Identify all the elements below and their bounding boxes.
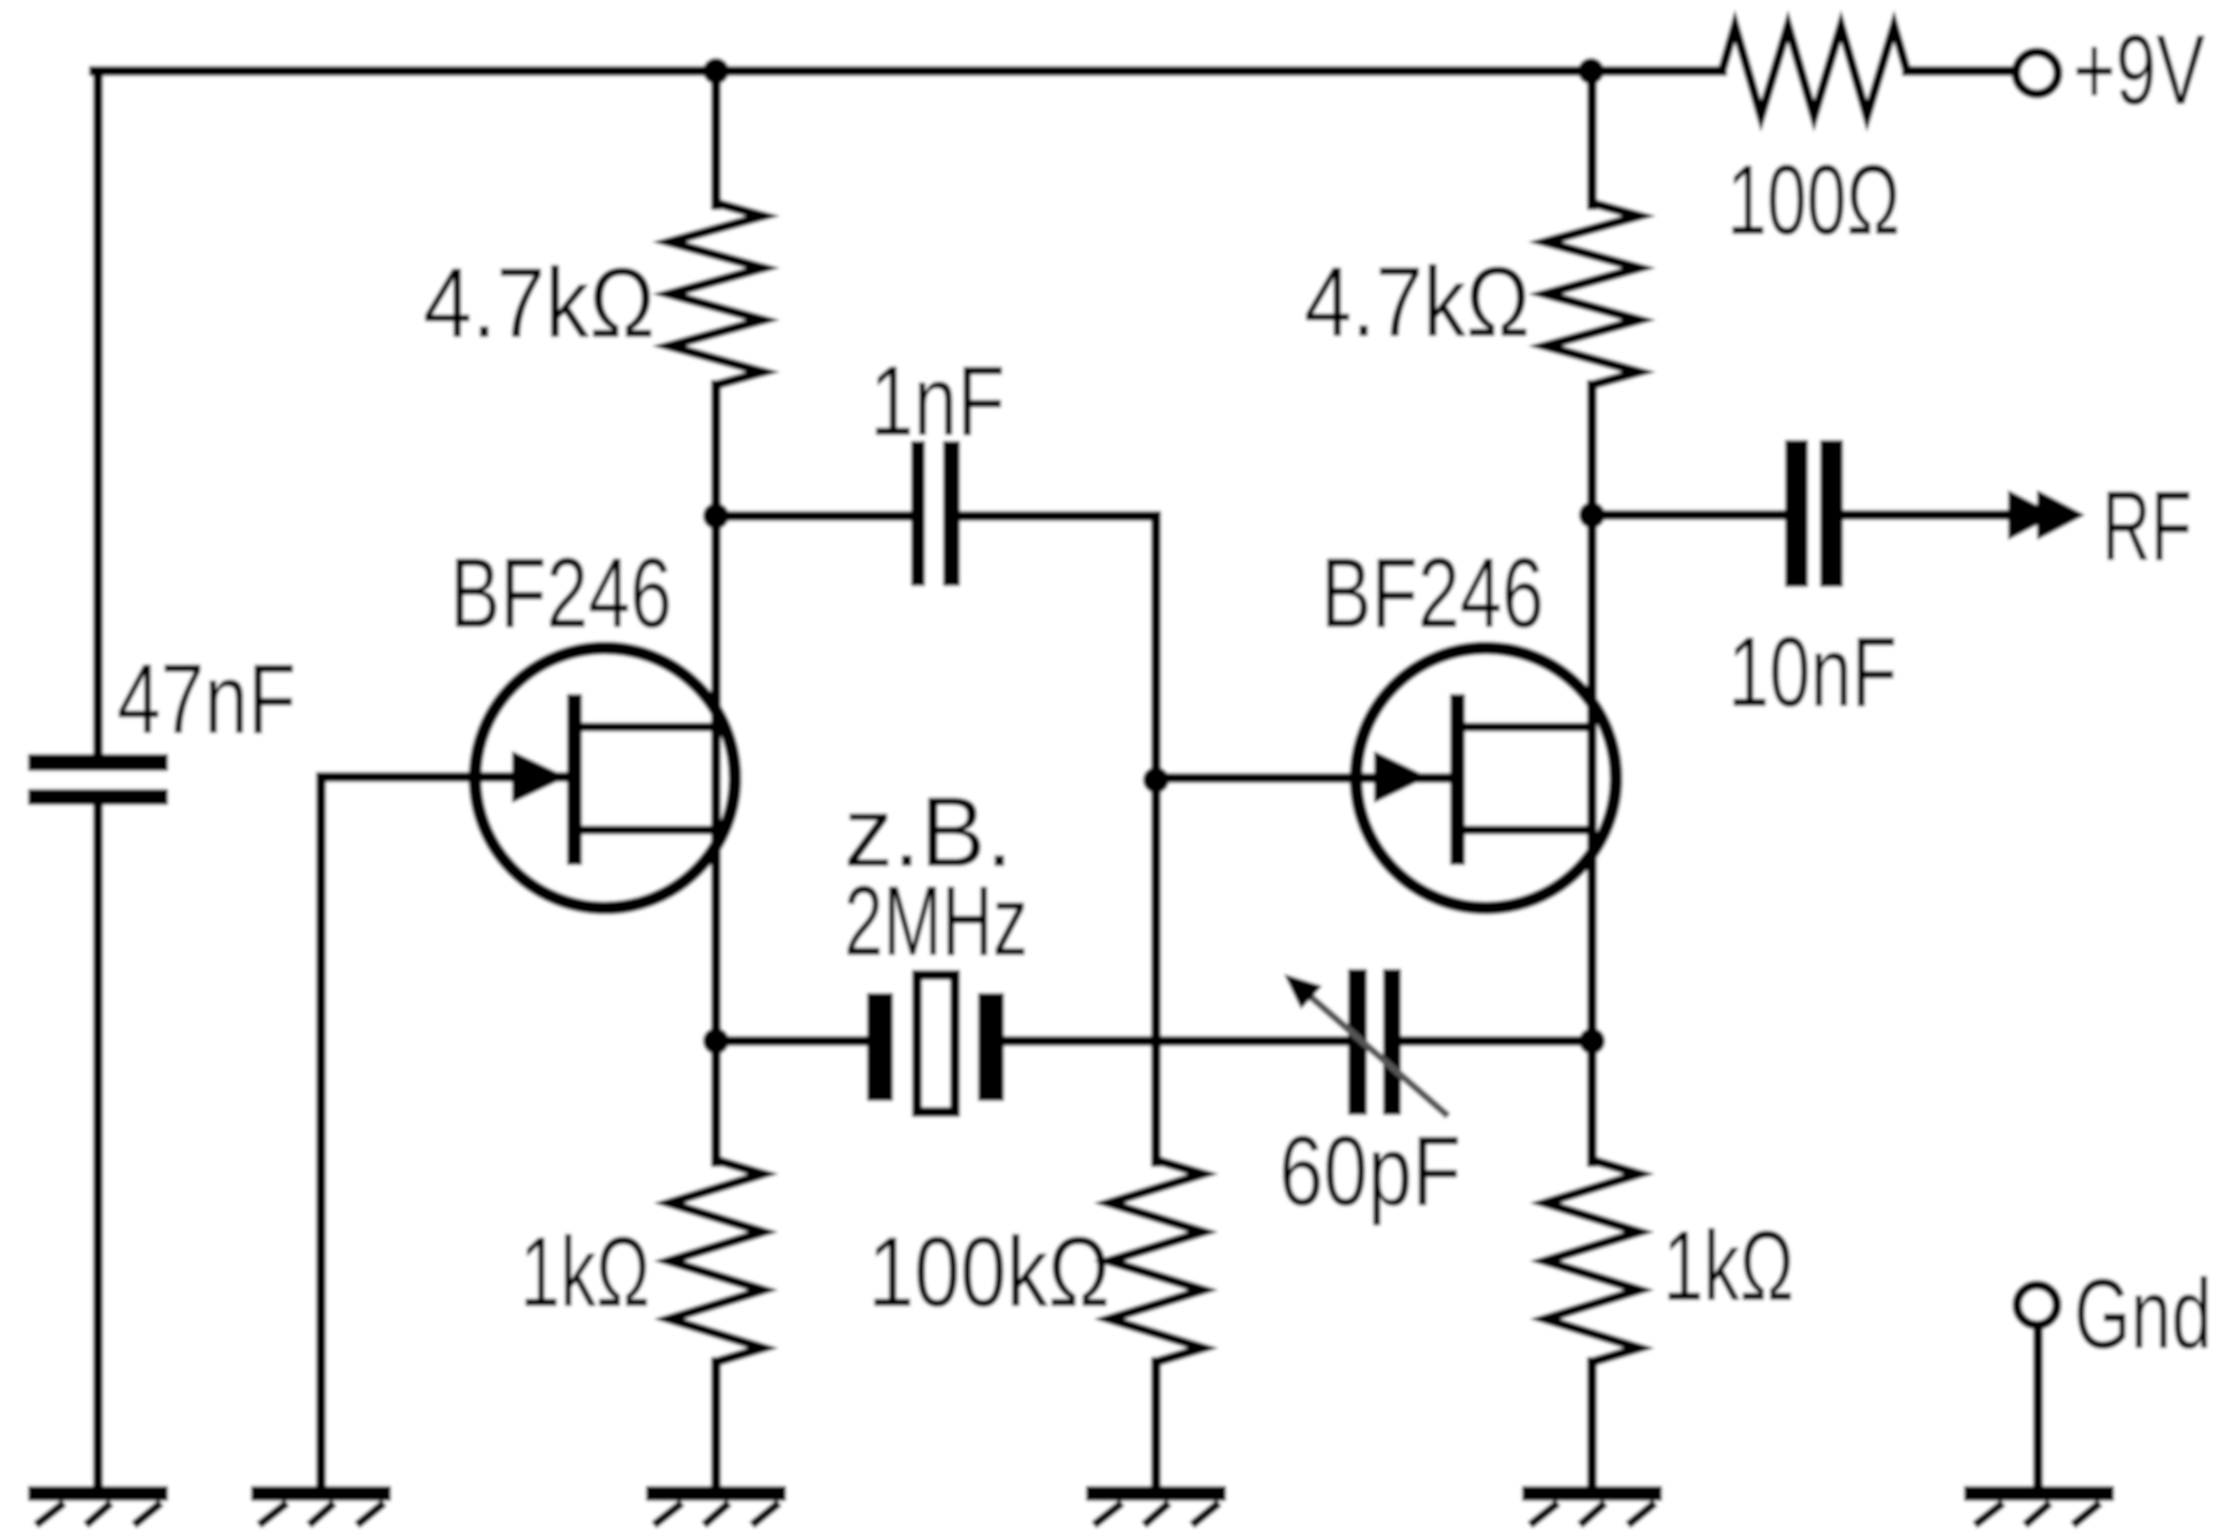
- wire 60pF to node E: [1401, 1036, 1592, 1046]
- svg-text:1kΩ: 1kΩ: [520, 1216, 650, 1327]
- svg-text:RF: RF: [2102, 470, 2192, 581]
- wire 1nF drop to 100k: [1151, 516, 1161, 1162]
- svg-text:Gnd: Gnd: [2074, 1258, 2212, 1369]
- wire drain column Q2: [1587, 516, 1597, 1162]
- resistor R 4.7k left: [669, 203, 763, 385]
- wire 100k to ground: [1151, 1362, 1161, 1490]
- crystal XT 2MHz: [867, 993, 893, 1101]
- ground symbol 3: [646, 1486, 786, 1525]
- wire node C to 10nF: [1592, 510, 1785, 520]
- resistor 1k left: [669, 1160, 763, 1362]
- node junction drain Q1: [703, 503, 729, 529]
- wire drain column Q1: [711, 516, 721, 1162]
- wire top rail: [94, 66, 1722, 76]
- wire crystal to 60pF: [1004, 1036, 1348, 1046]
- svg-text:+9V: +9V: [2073, 14, 2205, 125]
- wire R1 top feed: [711, 71, 721, 205]
- svg-text:1kΩ: 1kΩ: [1663, 1210, 1794, 1321]
- wire gate Q2: [1156, 773, 1452, 783]
- transistor Q1 BF246: [475, 648, 735, 908]
- wire gate Q1: [321, 772, 569, 782]
- node junction top left: [703, 58, 729, 84]
- capacitor 60pF variable: [1348, 969, 1367, 1115]
- wire 47nF to ground: [93, 805, 103, 1490]
- resistor 100k: [1109, 1160, 1203, 1362]
- svg-text:100Ω: 100Ω: [1727, 144, 1900, 255]
- svg-text:1nF: 1nF: [870, 345, 1005, 456]
- capacitor 10nF: [1785, 440, 1808, 587]
- svg-text:100kΩ: 100kΩ: [868, 1216, 1110, 1327]
- svg-text:BF246: BF246: [450, 537, 672, 648]
- wire node B to 1nF: [716, 511, 911, 521]
- terminal Gnd: [2017, 1285, 2057, 1325]
- ground symbol 2: [251, 1486, 391, 1525]
- wire 1k right to ground: [1587, 1362, 1597, 1490]
- wire gate Q1 drop to ground: [316, 777, 326, 1490]
- svg-text:10nF: 10nF: [1728, 616, 1897, 727]
- node junction gate Q2: [1143, 767, 1169, 793]
- wire crystal row left: [716, 1036, 867, 1046]
- ground symbol 6: [1964, 1486, 2114, 1525]
- wire R1 to node B: [711, 385, 721, 516]
- wire 1k left to ground: [711, 1362, 721, 1490]
- resistor 100ohm: [1722, 26, 1907, 116]
- node junction source Q2: [1579, 1028, 1605, 1054]
- node junction top right: [1578, 58, 1604, 84]
- wire 100ohm to +9V terminal: [1907, 66, 2016, 76]
- capacitor 1nF: [911, 441, 925, 586]
- wire left drop to 47nF: [93, 71, 103, 754]
- svg-text:4.7kΩ: 4.7kΩ: [423, 247, 655, 358]
- wire 1nF to corner: [960, 511, 1156, 521]
- transistor Q2 BF246: [1356, 648, 1616, 908]
- wire R2 to node C: [1587, 385, 1597, 516]
- node junction drain Q2: [1579, 502, 1605, 528]
- node junction source Q1: [703, 1028, 729, 1054]
- resistor 1k right: [1545, 1160, 1639, 1362]
- RF output arrow: [2008, 490, 2056, 540]
- svg-text:4.7kΩ: 4.7kΩ: [1304, 246, 1530, 357]
- ground symbol 1: [28, 1486, 168, 1525]
- terminal +9V: [2016, 52, 2058, 94]
- capacitor 47nF: [28, 754, 168, 771]
- wire 10nF to RF arrow: [1843, 510, 2012, 520]
- wire R2 top feed: [1587, 71, 1597, 205]
- svg-text:2MHz: 2MHz: [844, 865, 1028, 976]
- wire Gnd terminal drop: [2033, 1325, 2043, 1490]
- resistor R 4.7k right: [1545, 203, 1639, 385]
- svg-text:47nF: 47nF: [117, 643, 296, 754]
- svg-text:60pF: 60pF: [1279, 1115, 1461, 1226]
- ground symbol 4: [1086, 1486, 1226, 1525]
- svg-text:BF246: BF246: [1321, 537, 1544, 648]
- ground symbol 5: [1522, 1486, 1662, 1525]
